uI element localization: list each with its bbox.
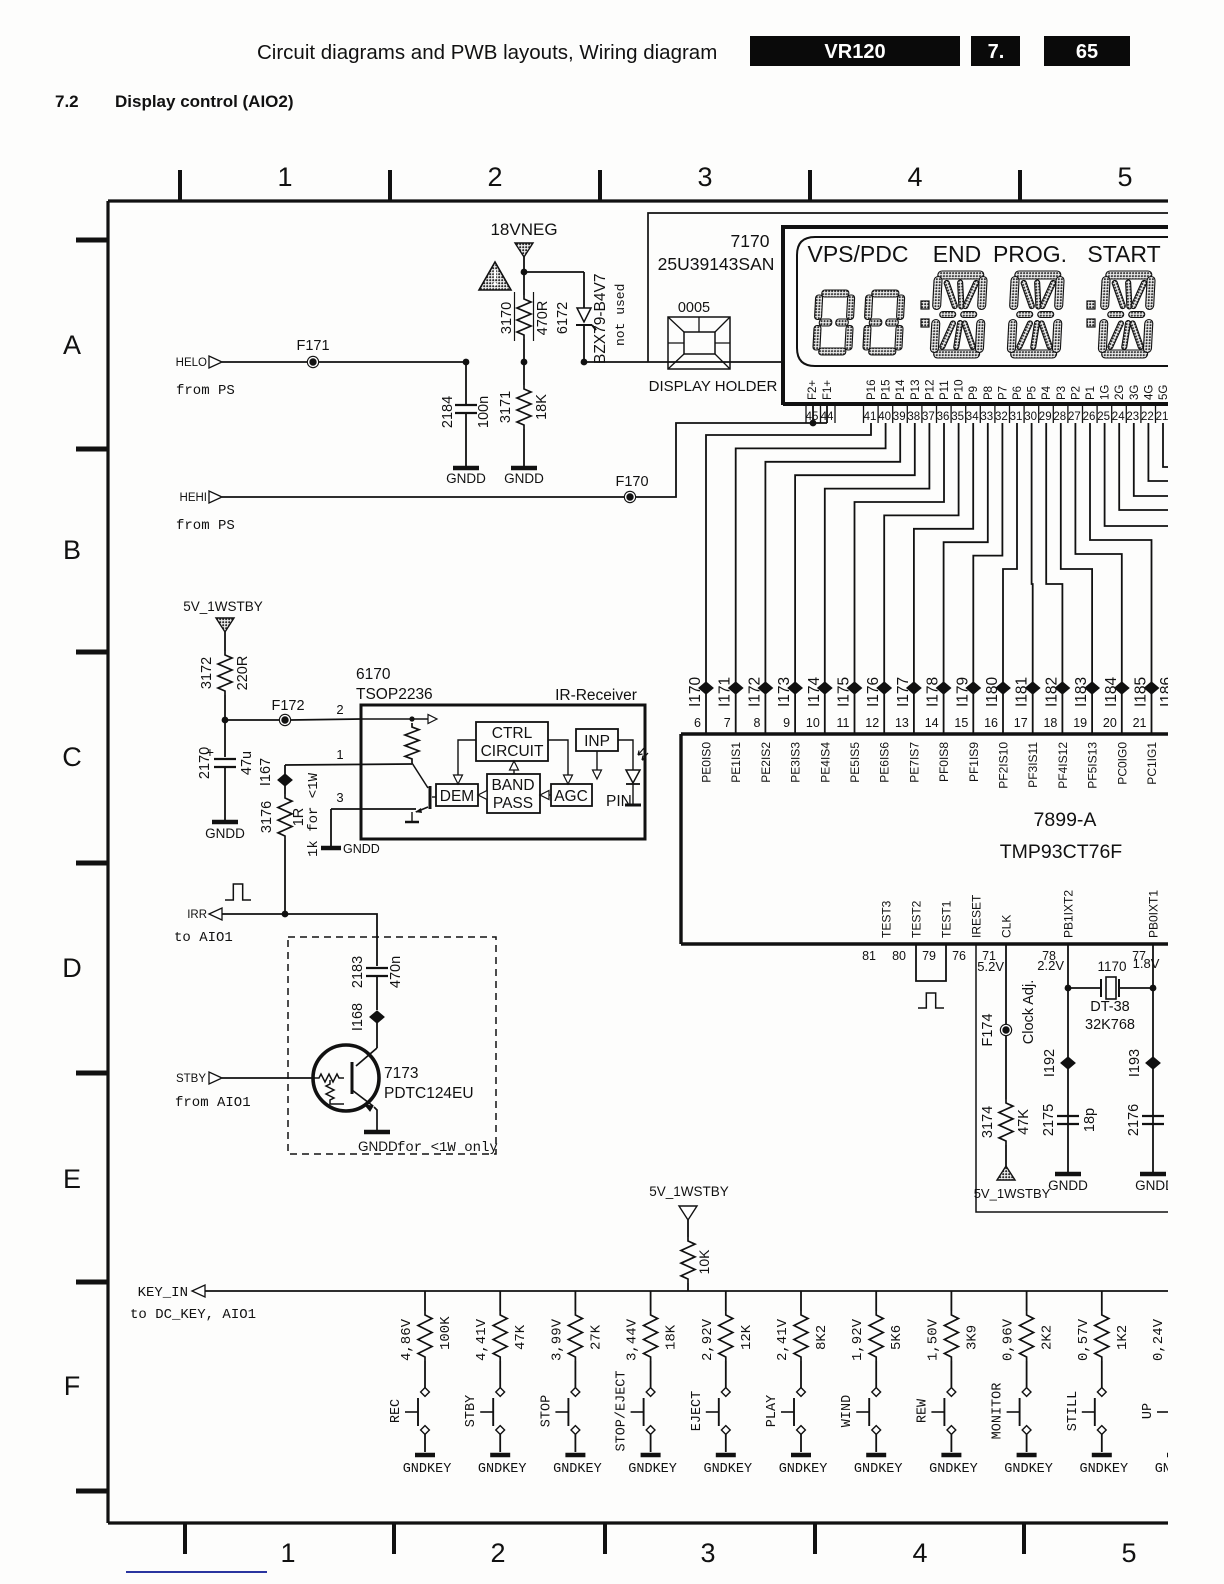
svg-text:7.2: 7.2 [55,92,79,111]
svg-text:40: 40 [878,411,891,423]
svg-text:2,92V: 2,92V [700,1318,716,1361]
key MONITOR ground GNDKEY [1017,1453,1037,1458]
key MONITOR resistor 2K2 [1026,1291,1028,1311]
svg-text:PE5IS5: PE5IS5 [848,742,862,783]
svg-text:2175: 2175 [1041,1104,1057,1136]
svg-text:GNDKEY: GNDKEY [854,1462,903,1477]
wire emitter to GNDD [374,1107,377,1130]
svg-text:TEST3: TEST3 [880,900,894,938]
svg-text:470n: 470n [388,956,404,988]
svg-text:CIRCUIT: CIRCUIT [481,743,544,760]
row ruler ticks left [76,238,108,243]
svg-text:I184: I184 [1103,676,1120,707]
svg-text:PE7IS7: PE7IS7 [907,742,921,783]
key PLAY switch [797,1388,806,1397]
svg-text:P3: P3 [1056,386,1068,400]
node I182 [1055,682,1069,694]
node I173 [788,682,802,694]
wire HEHI [222,496,624,498]
svg-text:1k for <1W: 1k for <1W [306,772,322,857]
block BAND PASS [487,774,540,813]
svg-text:GNDKEY: GNDKEY [1079,1462,1128,1477]
wire STBY to base [222,1077,315,1079]
svg-text:81: 81 [862,949,876,963]
ferrite bead F171 [307,356,319,368]
node crystal left [1065,985,1072,992]
svg-text:GNDD: GNDD [205,826,245,841]
wire F170 to display filament [636,423,827,497]
wire display pin 34 to I177 [914,423,973,734]
svg-text:END: END [933,241,982,267]
svg-text:GNDKEY: GNDKEY [779,1462,828,1477]
svg-text:GNDKEY: GNDKEY [628,1462,677,1477]
svg-text:3: 3 [700,1538,715,1568]
node I174 [818,682,832,694]
svg-text:6: 6 [694,716,701,730]
svg-text:BZX79-B4V7: BZX79-B4V7 [592,274,609,364]
ferrite bead F170 [624,491,636,503]
svg-text:10: 10 [806,716,820,730]
capacitor 2184 100n [465,362,467,405]
resistor 3170 470R [517,295,531,339]
node 5V divider [222,717,229,724]
svg-text:11: 11 [837,716,850,730]
svg-text:47K: 47K [513,1324,529,1350]
svg-text:16: 16 [984,716,998,730]
svg-text:PF5IS13: PF5IS13 [1086,742,1100,789]
display module 7170 box [783,227,1170,405]
svg-text:BAND: BAND [491,777,534,794]
arrow CTRL to DEM [458,740,476,778]
wire display pin 30 to I181 [1032,423,1033,734]
key STILL switch [1097,1388,1106,1397]
svg-text:not used: not used [613,284,628,346]
frame border [108,201,1168,1523]
key MONITOR switch [1022,1388,1031,1397]
ground GNDD under 3171 [511,466,537,471]
svg-text:F2+: F2+ [807,380,819,400]
node I192 [1061,1057,1075,1069]
svg-text:INP: INP [584,733,610,750]
svg-text:I176: I176 [865,677,882,707]
svg-text:7: 7 [724,716,731,730]
svg-text:I181: I181 [1014,677,1031,707]
svg-text:START: START [1087,241,1160,267]
svg-text:18K: 18K [534,394,550,420]
svg-text:1K2: 1K2 [1115,1325,1131,1350]
svg-text:PC1IG1: PC1IG1 [1145,742,1159,785]
svg-text:2170: 2170 [197,747,213,779]
header black box 65 [1044,36,1130,66]
svg-text:17: 17 [1014,716,1028,730]
transistor 7173 PDTC124EU [313,1045,379,1111]
key WIND resistor 5K6 [875,1291,877,1311]
svg-text:F1+: F1+ [822,380,834,400]
svg-text:100n: 100n [476,396,492,428]
key PLAY resistor 8K2 [800,1291,802,1311]
wire PB1IXT2 down [1067,944,1069,1172]
IC 7899-A TMP93CT76F box [681,734,1170,944]
svg-text:I193: I193 [1127,1049,1143,1077]
svg-text:5: 5 [1117,162,1132,192]
key REC ground GNDKEY [415,1453,435,1458]
svg-text:3: 3 [336,790,343,805]
svg-text:3170: 3170 [499,302,515,334]
node 18VNEG junction [521,269,528,276]
node I177 [907,682,921,694]
svg-text:for <1W only: for <1W only [397,1140,498,1156]
svg-text:12: 12 [865,716,879,730]
svg-text:3,99V: 3,99V [549,1318,565,1361]
display assembly 7170 outline [648,213,1168,362]
display pin cells 41..21 [863,406,865,423]
capacitor 2176 [1142,1115,1164,1117]
svg-text:25: 25 [1097,411,1110,423]
key STBY switch [496,1388,505,1397]
svg-text:REW: REW [915,1398,930,1423]
svg-text:E: E [63,1164,81,1194]
column ruler ticks bottom [183,1523,187,1554]
14-seg digit END [930,271,988,358]
key STOP/EJECT resistor 18K [650,1291,652,1311]
svg-text:KEY_IN: KEY_IN [138,1285,188,1301]
svg-text:0005: 0005 [678,300,710,316]
svg-text:3176: 3176 [259,801,275,833]
svg-text:DISPLAY HOLDER: DISPLAY HOLDER [649,378,778,395]
svg-text:45: 45 [806,411,819,423]
svg-text:C: C [62,742,82,772]
svg-text:27K: 27K [588,1324,604,1350]
KEY_IN line to DC_KEY AIO1 [205,1290,1170,1292]
wire R3170 to HELO line [523,339,525,362]
wire PB0IXT1 down [1152,944,1154,1172]
svg-text:7.: 7. [988,41,1005,63]
node I184 [1115,682,1129,694]
wire display pin 35 to I176 [884,423,958,734]
wire display pin 24 exit right [1119,423,1170,510]
bracket under TEST2 TEST1 [916,944,946,981]
svg-text:21: 21 [1156,411,1169,423]
svg-text:6170: 6170 [356,666,391,683]
wire CLK down [1005,944,1007,1024]
page right crop [1168,140,1224,1584]
svg-text:470R: 470R [535,301,551,336]
photodiode PIN [626,770,640,783]
wire I168 to transistor [376,1023,378,1048]
svg-text:MONITOR: MONITOR [991,1383,1006,1440]
svg-text:P15: P15 [881,380,893,400]
key STBY resistor 47K [499,1291,501,1311]
svg-text:30: 30 [1024,411,1037,423]
svg-text:PIN: PIN [606,793,632,810]
svg-text:I174: I174 [806,676,823,707]
svg-text:GNDKEY: GNDKEY [403,1462,452,1477]
svg-text:STOP/EJECT: STOP/EJECT [615,1370,630,1451]
svg-text:P11: P11 [939,380,951,400]
colon dots left [921,301,929,309]
key STOP ground GNDKEY [565,1453,585,1458]
svg-text:GNDD: GNDD [446,471,486,486]
wire F172 to IR pin 2 [291,719,361,720]
svg-text:PE2IS2: PE2IS2 [759,742,773,783]
14-seg digit PROG [1007,271,1065,358]
svg-text:GNDD: GNDD [1048,1178,1088,1193]
svg-text:15: 15 [954,716,968,730]
svg-text:P1: P1 [1085,386,1097,400]
svg-text:CLK: CLK [1000,915,1014,938]
svg-text:VPS/PDC: VPS/PDC [808,241,909,267]
svg-text:4G: 4G [1143,385,1155,400]
wire to F172 [225,719,279,721]
node crystal right [1150,985,1157,992]
pulse symbol IRR [225,884,251,900]
node I175 [848,682,862,694]
svg-text:P13: P13 [910,380,922,400]
svg-text:F: F [64,1371,81,1401]
svg-text:P12: P12 [924,380,936,400]
node I176 [877,682,891,694]
svg-text:2: 2 [490,1538,505,1568]
svg-text:TEST2: TEST2 [910,900,924,938]
node I167 [278,774,292,786]
wire 18VNEG to diode [524,271,584,273]
key REW resistor 3K9 [950,1291,952,1311]
svg-text:2184: 2184 [440,396,456,428]
svg-text:13: 13 [895,716,909,730]
footer blue line [126,1571,267,1573]
key STOP/EJECT switch [646,1388,655,1397]
arrow INP down [596,751,598,772]
svg-text:4: 4 [907,162,922,192]
svg-text:3174: 3174 [980,1106,996,1138]
node filament junction [810,420,817,427]
resistor 3172 220R [218,651,232,695]
key STOP/EJECT ground GNDKEY [641,1453,661,1458]
svg-text:REC: REC [389,1399,404,1423]
svg-text:3: 3 [697,162,712,192]
svg-text:VR120: VR120 [824,41,885,63]
svg-text:P6: P6 [1012,386,1024,400]
key REC switch [421,1388,430,1397]
block INP [576,729,618,751]
svg-text:PE1IS1: PE1IS1 [729,742,743,783]
svg-text:I182: I182 [1043,677,1060,707]
svg-text:I170: I170 [687,676,704,707]
svg-text:GNDKEY: GNDKEY [929,1462,978,1477]
node I181 [1026,682,1040,694]
wire HELO to display [584,361,648,363]
ground GNDD under 2175 [1055,1172,1081,1177]
svg-text:PF1IS9: PF1IS9 [967,742,981,782]
wire IR pin 3 to GNDKEY [331,808,416,810]
svg-text:10K: 10K [696,1249,712,1275]
svg-text:P16: P16 [866,380,878,400]
svg-text:41: 41 [864,411,877,423]
svg-text:TSOP2236: TSOP2236 [356,686,433,703]
ground GNDD under 2176 [1140,1172,1166,1177]
svg-text:1R: 1R [291,808,307,827]
svg-text:EJECT: EJECT [690,1391,705,1432]
wire display pin 28 to I183 [1061,423,1092,734]
node I171 [729,682,743,694]
resistor 3176 1R [284,786,286,794]
key REW ground GNDKEY [941,1453,961,1458]
svg-text:24: 24 [1112,411,1125,423]
svg-text:80: 80 [892,949,906,963]
svg-text:P7: P7 [997,386,1009,400]
7-seg digit 2 [863,290,905,355]
svg-text:PF2IS10: PF2IS10 [997,742,1011,789]
svg-text:GNDKEY: GNDKEY [703,1462,752,1477]
key STBY ground GNDKEY [490,1453,510,1458]
svg-text:HEHI: HEHI [180,492,207,504]
resistor 10K pullup [681,1237,695,1283]
node I170 [699,682,713,694]
svg-text:I167: I167 [258,758,274,786]
svg-text:47K: 47K [1016,1109,1032,1135]
svg-text:5V_1WSTBY: 5V_1WSTBY [649,1184,729,1199]
svg-text:26: 26 [1083,411,1096,423]
svg-text:39: 39 [893,411,906,423]
svg-text:PF0IS8: PF0IS8 [937,742,951,782]
svg-text:F171: F171 [296,338,329,354]
svg-text:79: 79 [922,949,936,963]
arrow AGC to BANDPASS [546,794,551,796]
key EJECT resistor 12K [725,1291,727,1311]
svg-text:0,96V: 0,96V [1001,1318,1017,1361]
svg-text:18: 18 [1043,716,1057,730]
wire display pin 40 to I171 [736,423,886,734]
IR internal resistor [409,716,414,721]
svg-text:65: 65 [1076,41,1098,63]
capacitor 2175 18p [1057,1115,1079,1117]
ferrite bead F174 [1000,1024,1012,1036]
svg-text:5: 5 [1121,1538,1136,1568]
key STOP switch [571,1388,580,1397]
svg-text:0,24V: 0,24V [1151,1318,1167,1361]
svg-text:PLAY: PLAY [765,1395,780,1427]
key UP resistor 560R [1176,1291,1178,1311]
svg-text:to AIO1: to AIO1 [174,930,233,946]
svg-text:31: 31 [1010,411,1023,423]
svg-text:UP: UP [1141,1403,1156,1419]
svg-text:A: A [63,330,81,360]
svg-text:7899-A: 7899-A [1034,809,1097,831]
block DEM [436,784,478,806]
svg-text:33: 33 [980,411,993,423]
svg-text:F172: F172 [271,698,304,714]
svg-text:32K768: 32K768 [1085,1017,1135,1033]
svg-text:3G: 3G [1129,385,1141,400]
column ruler ticks top [178,170,182,201]
svg-text:1: 1 [280,1538,295,1568]
svg-text:IR-Receiver: IR-Receiver [555,687,637,704]
node HELO junction 1 [463,359,470,366]
svg-text:PF3IS11: PF3IS11 [1026,742,1040,788]
svg-text:2: 2 [487,162,502,192]
svg-text:76: 76 [952,949,966,963]
key EJECT switch [721,1388,730,1397]
svg-text:25U39143SAN: 25U39143SAN [658,254,775,274]
svg-text:P5: P5 [1027,386,1039,400]
svg-text:PE6IS6: PE6IS6 [878,742,892,783]
wire F174 to R3174 [1005,1036,1007,1099]
svg-text:1: 1 [336,747,343,762]
svg-text:2,41V: 2,41V [775,1318,791,1361]
svg-text:P9: P9 [968,386,980,400]
svg-text:DT-38: DT-38 [1090,999,1130,1015]
svg-text:I168: I168 [350,1003,366,1031]
svg-text:from PS: from PS [176,518,235,534]
svg-text:TEST1: TEST1 [940,900,954,938]
svg-text:9: 9 [783,716,790,730]
ferrite bead F172 [279,714,291,726]
node I180 [996,682,1010,694]
svg-text:8K2: 8K2 [814,1325,830,1350]
zener diode 6172 BZX79-B4V7 not used [583,272,585,308]
svg-text:2176: 2176 [1126,1104,1142,1136]
wire display pin 38 to I173 [795,423,915,734]
svg-text:F174: F174 [980,1013,996,1046]
capacitor 2170 47u electrolytic [224,720,226,757]
IR internal input arrow [361,718,430,720]
svg-text:27: 27 [1068,411,1081,423]
svg-text:4,41V: 4,41V [474,1318,490,1361]
svg-text:DEM: DEM [440,788,474,805]
svg-text:18p: 18p [1082,1108,1098,1132]
svg-text:3,44V: 3,44V [625,1318,641,1361]
node I179 [966,682,980,694]
svg-text:4: 4 [912,1538,927,1568]
svg-text:STOP: STOP [539,1395,554,1427]
svg-text:from PS: from PS [176,383,235,399]
wire IRR to cap 2183 [285,914,377,937]
svg-text:0,57V: 0,57V [1076,1318,1092,1361]
svg-text:35: 35 [951,411,964,423]
key EJECT ground GNDKEY [716,1453,736,1458]
node I193 [1146,1057,1160,1069]
svg-text:Circuit diagrams and PWB layou: Circuit diagrams and PWB layouts, Wiring… [257,41,717,64]
svg-text:HELO: HELO [176,357,207,369]
wire filament F2+ [812,406,814,423]
wire display pin 27 to I184 [1075,423,1121,734]
svg-text:29: 29 [1039,411,1052,423]
wire IRESET down and right [976,944,1170,1212]
crystal 1170 DT-38 32K768 [1068,987,1101,989]
capacitor 2183 470n [376,937,378,966]
header black box 7. [971,36,1020,66]
svg-text:P14: P14 [895,379,907,400]
node HELO junction 2 [521,359,528,366]
7-seg digit 1 [813,290,855,355]
svg-text:1G: 1G [1100,385,1112,400]
IR receiver 6170 TSOP2236 box [361,705,645,839]
svg-text:5K6: 5K6 [889,1325,905,1350]
svg-text:1: 1 [277,162,292,192]
svg-text:14: 14 [925,716,939,730]
svg-text:I183: I183 [1073,677,1090,707]
key UP ground GNDKEY [1167,1453,1187,1458]
dashed box standby [288,937,496,1154]
svg-text:D: D [62,953,82,983]
svg-text:PASS: PASS [493,795,533,812]
svg-text:23: 23 [1126,411,1139,423]
IRR output to AIO1 [282,911,289,918]
svg-text:GNDD: GNDD [343,842,380,856]
wire display pin 31 to I1710 [1003,423,1017,734]
wire display pin 21 exit right [1163,423,1170,467]
svg-text:36: 36 [937,411,950,423]
